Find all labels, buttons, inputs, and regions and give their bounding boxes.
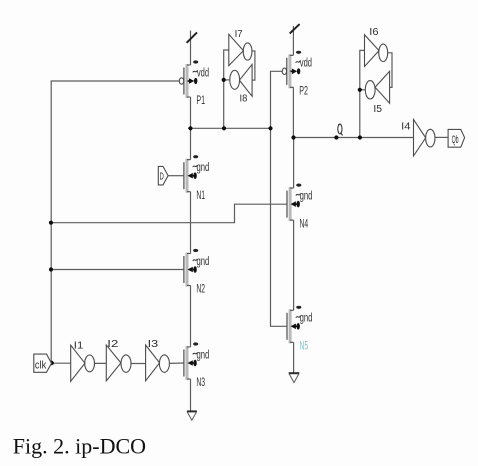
svg-text:I5: I5 — [373, 104, 382, 115]
svg-text:I6: I6 — [369, 27, 379, 38]
svg-text:Qb: Qb — [452, 134, 459, 146]
svg-text:P1: P1 — [196, 95, 205, 107]
svg-text:gnd: gnd — [197, 162, 210, 174]
svg-text:N1: N1 — [196, 190, 205, 202]
svg-text:vdd: vdd — [300, 58, 312, 70]
svg-text:clk: clk — [35, 359, 47, 371]
svg-text:P2: P2 — [299, 86, 308, 98]
svg-text:N2: N2 — [196, 284, 205, 296]
svg-text:I3: I3 — [148, 339, 159, 350]
svg-text:gnd: gnd — [300, 313, 313, 325]
svg-text:D: D — [160, 171, 165, 183]
svg-text:Fig. 2. ip-DCO: Fig. 2. ip-DCO — [13, 433, 146, 458]
svg-text:N4: N4 — [300, 218, 309, 230]
svg-text:gnd: gnd — [300, 190, 313, 202]
svg-text:I4: I4 — [401, 122, 411, 133]
svg-text:I2: I2 — [107, 339, 119, 350]
svg-text:vdd: vdd — [197, 67, 209, 79]
svg-text:I7: I7 — [235, 29, 243, 40]
svg-text:gnd: gnd — [197, 256, 210, 268]
svg-text:gnd: gnd — [197, 349, 210, 361]
svg-text:N5: N5 — [300, 341, 309, 353]
svg-text:I1: I1 — [74, 341, 84, 352]
svg-text:N3: N3 — [196, 377, 205, 389]
svg-text:I8: I8 — [240, 94, 248, 105]
